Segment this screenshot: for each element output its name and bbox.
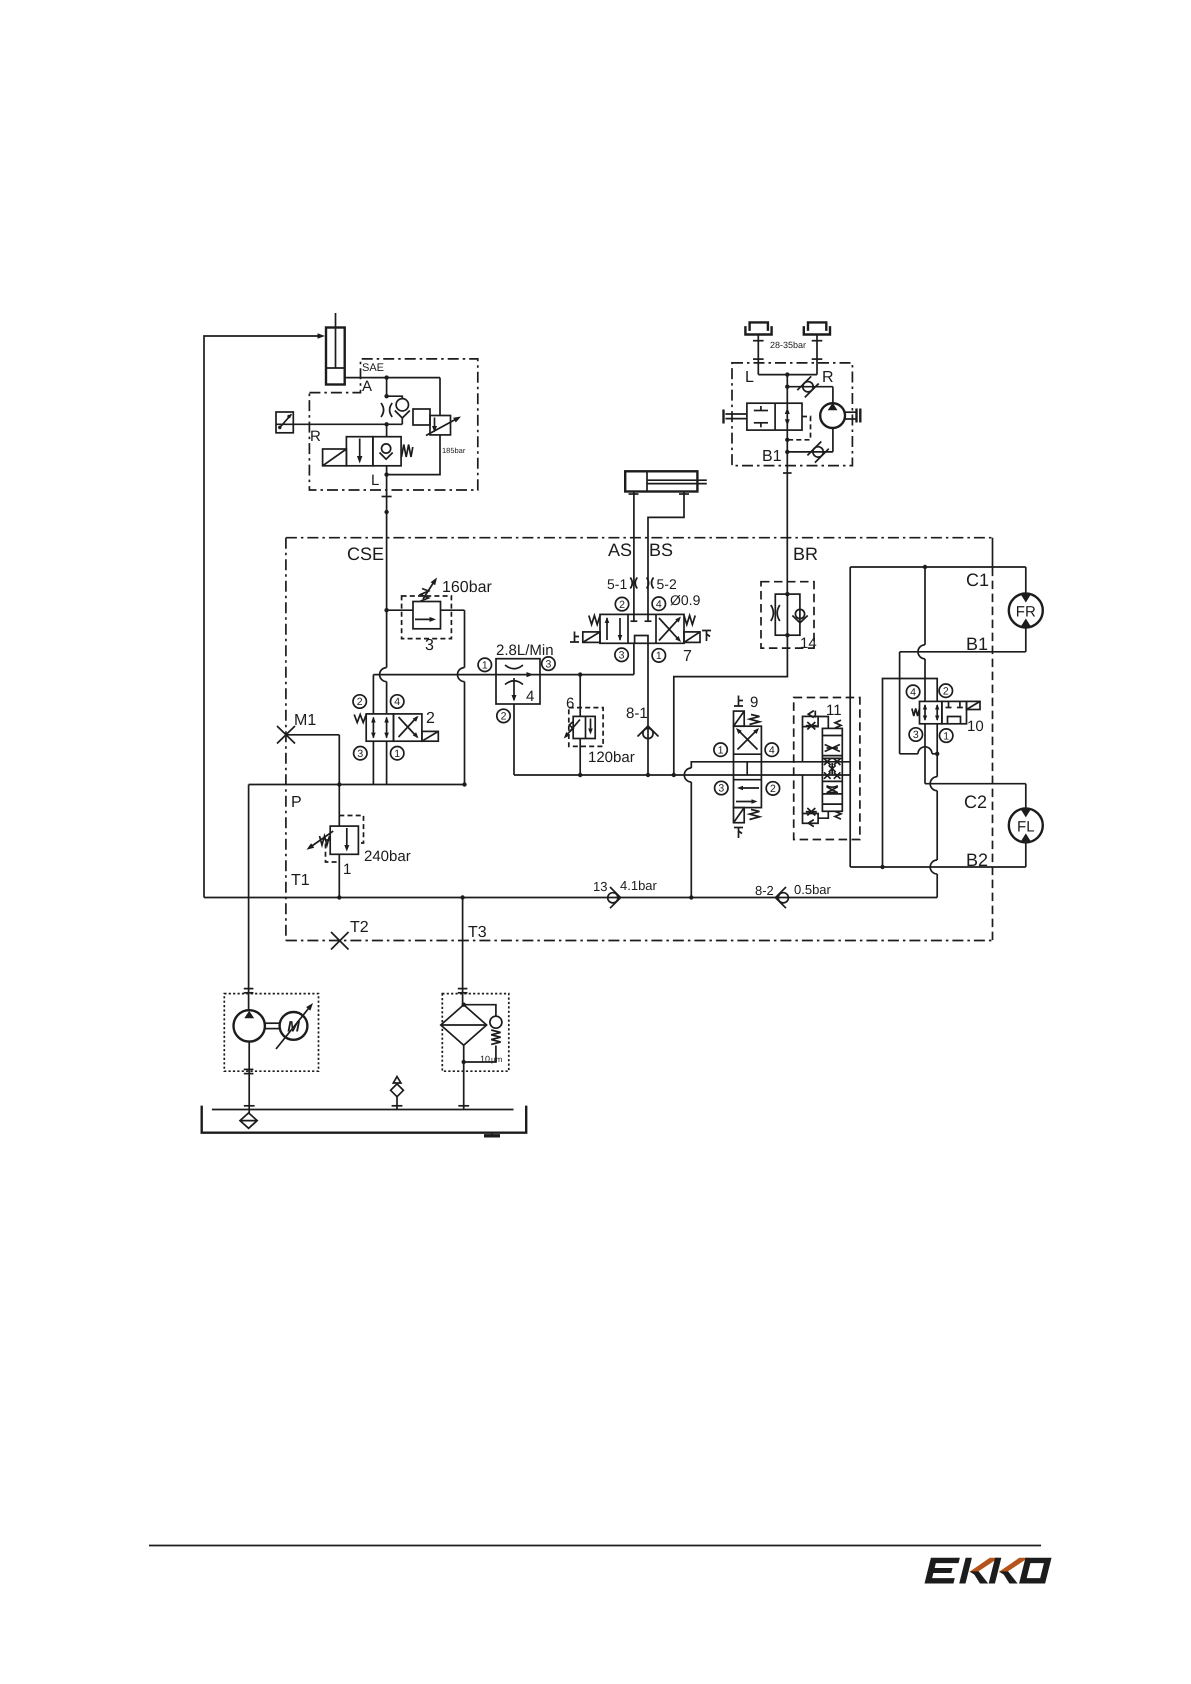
hydraulic motor brake (tow release)	[820, 387, 860, 428]
label 28-35bar	[770, 340, 806, 350]
svg-text:A: A	[362, 378, 372, 395]
svg-text:P: P	[291, 794, 302, 811]
svg-text:1: 1	[943, 730, 949, 742]
valve 7 labels	[570, 576, 711, 665]
valve 9 labels	[714, 694, 780, 838]
svg-text:10: 10	[967, 718, 984, 735]
wire pump riser P	[244, 785, 254, 1011]
svg-text:4: 4	[526, 688, 534, 705]
solenoid valve SAE 2/2	[323, 437, 413, 466]
svg-text:C2: C2	[964, 792, 987, 812]
svg-text:6: 6	[566, 695, 574, 712]
filter bypass check valve	[464, 1005, 503, 1064]
check valve pilot-operated (SAE)	[387, 396, 410, 424]
port label T1	[291, 872, 310, 889]
check valve 13 (4.1bar)	[593, 878, 658, 908]
svg-text:13: 13	[593, 879, 607, 894]
wire tank return header y897.5	[204, 895, 937, 899]
wire valve10 right riser	[880, 679, 937, 898]
valve 14 orifice+check	[761, 582, 817, 652]
svg-text:2: 2	[770, 783, 776, 795]
svg-text:2: 2	[357, 696, 363, 708]
tank ground mark	[484, 1133, 500, 1136]
wire main line through valve to node L	[371, 424, 389, 489]
EKKO logo	[925, 1558, 1052, 1584]
port label BR	[793, 544, 818, 564]
svg-text:CSE: CSE	[347, 544, 384, 564]
svg-text:160bar: 160bar	[442, 579, 492, 596]
wire B1 line	[900, 634, 1026, 654]
svg-text:2.8L/Min: 2.8L/Min	[496, 642, 554, 659]
svg-text:3: 3	[718, 783, 724, 795]
directional valve 2 (4/2 solenoid)	[354, 714, 438, 741]
svg-text:3: 3	[545, 658, 551, 670]
svg-text:R: R	[310, 428, 321, 445]
relief valve 185bar	[413, 409, 466, 455]
wire valve10 left riser (C1 to C2)	[918, 567, 925, 784]
svg-text:B2: B2	[966, 850, 988, 870]
return filter	[441, 1003, 487, 1110]
svg-text:1: 1	[656, 650, 662, 662]
port M1 plugged	[277, 712, 316, 744]
svg-text:L: L	[371, 472, 379, 489]
brake release spool cylinder	[724, 403, 803, 430]
svg-text:3: 3	[619, 650, 625, 662]
node 3 label (flow reg out)	[542, 657, 555, 670]
svg-text:1: 1	[343, 861, 351, 878]
svg-text:2: 2	[501, 711, 507, 723]
svg-text:2: 2	[943, 685, 949, 697]
svg-text:185bar: 185bar	[442, 446, 466, 455]
svg-text:2: 2	[426, 710, 435, 727]
node 2 label (flow reg bottom)	[497, 709, 510, 722]
solenoid valve 10	[912, 701, 980, 723]
wire valve2 bottom ports to P line	[373, 741, 386, 784]
flow divider assembly 11	[794, 698, 860, 840]
wire BS line	[648, 492, 684, 615]
svg-text:B1: B1	[762, 448, 782, 465]
switch S1 (tilt lock)	[276, 412, 309, 433]
wire R line	[309, 422, 402, 445]
port label P	[291, 794, 302, 811]
svg-text:7: 7	[683, 648, 692, 665]
wire upper bus y761.8	[734, 761, 851, 763]
port label BS	[649, 540, 673, 560]
wire riser from tank-return line (hops bus)	[684, 762, 733, 898]
pump unit dotted enclosure	[224, 994, 318, 1072]
wire C1 line	[850, 565, 1026, 590]
wire lower bus y775	[514, 773, 850, 777]
svg-text:1: 1	[718, 744, 724, 756]
svg-text:SAE: SAE	[362, 362, 384, 374]
wire brake L/R manifold	[758, 372, 817, 403]
svg-text:L: L	[745, 369, 754, 386]
svg-text:9: 9	[750, 694, 758, 711]
pump P1	[234, 1010, 265, 1041]
wire to valve2 port2	[372, 675, 374, 714]
relief valve 3 160bar	[387, 578, 493, 655]
svg-text:AS: AS	[608, 540, 632, 560]
svg-text:4: 4	[769, 744, 775, 756]
directional valve 7 (4/3)	[583, 614, 700, 643]
svg-text:T3: T3	[468, 924, 487, 941]
svg-text:4: 4	[394, 696, 400, 708]
wire C2 line	[925, 784, 1026, 812]
port T2 plugged	[331, 919, 369, 950]
svg-text:3: 3	[913, 729, 919, 741]
directional valve 9	[734, 711, 762, 823]
valve 10 labels	[906, 684, 983, 742]
svg-text:10: 10	[480, 1054, 490, 1064]
svg-text:C1: C1	[966, 570, 989, 590]
brake actuator right	[804, 322, 830, 374]
wire node A down	[384, 378, 388, 399]
node 1 label (flow reg in)	[478, 658, 491, 671]
brake actuator left	[745, 322, 771, 374]
svg-text:BS: BS	[649, 540, 673, 560]
wire B1 drop and cross-over	[900, 652, 940, 756]
svg-text:120bar: 120bar	[588, 749, 635, 766]
relief valve 6 120bar	[564, 675, 635, 775]
svg-text:4: 4	[910, 687, 916, 699]
svg-text:8-2: 8-2	[755, 883, 774, 898]
wire regulated line y674	[373, 672, 634, 676]
svg-text:R: R	[822, 369, 834, 386]
cylinder tilt (top left)	[326, 313, 345, 385]
main manifold dash-dot enclosure	[286, 538, 993, 941]
brake unit dash-dot enclosure	[732, 363, 852, 466]
svg-text:T1: T1	[291, 872, 310, 889]
pilot dashed line brake spool	[787, 417, 810, 440]
wire cylinder to node A	[345, 377, 440, 379]
valve 2 port labels	[353, 695, 435, 760]
wire CSE line inside box	[380, 608, 389, 714]
electric motor M	[265, 1003, 313, 1049]
svg-text:1: 1	[482, 660, 488, 672]
wire CSE drop from SAE block	[382, 475, 392, 611]
svg-text:8-1: 8-1	[626, 705, 648, 722]
wire flow reg port2 down to bus	[513, 704, 515, 775]
wire right riser (C1 to B2)	[849, 567, 851, 867]
SAE valve block dash-dot enclosure	[309, 359, 477, 490]
check valve brake lower	[787, 428, 833, 463]
svg-text:M1: M1	[294, 712, 316, 729]
wire spool to B1 node	[762, 430, 790, 466]
svg-text:240bar: 240bar	[364, 848, 411, 865]
motor FL	[1009, 784, 1043, 867]
footer rule	[149, 1545, 1041, 1547]
svg-text:3: 3	[357, 748, 363, 760]
wire pump suction	[244, 1042, 255, 1113]
wire M1 to P junction	[286, 735, 339, 785]
wire valve14 to lower bus	[674, 635, 788, 775]
svg-text:B1: B1	[966, 634, 988, 654]
port label AS	[608, 540, 632, 560]
svg-text:4: 4	[656, 598, 662, 610]
svg-text:5-1: 5-1	[607, 576, 627, 592]
wire BR line	[783, 466, 792, 594]
check valve 8-2 (0.5bar)	[755, 882, 832, 908]
orifice on pilot check line	[381, 403, 392, 417]
wire T3 drop	[458, 898, 468, 1005]
svg-text:T2: T2	[350, 919, 369, 936]
suction strainer	[240, 1113, 257, 1128]
reservoir tank	[202, 1106, 527, 1133]
node A junction	[362, 362, 389, 395]
svg-text:14: 14	[800, 635, 817, 652]
wire node L to relief branch	[387, 378, 440, 475]
wire P supply line y784.5	[249, 782, 465, 786]
svg-text:4.1bar: 4.1bar	[620, 878, 658, 893]
cylinder steer (AS/BS)	[625, 471, 707, 494]
wire left outer supply line	[204, 333, 325, 897]
svg-text:3: 3	[425, 637, 434, 654]
motor FR	[1009, 567, 1043, 652]
svg-text:Ø0.9: Ø0.9	[670, 592, 701, 608]
relief valve 1 240bar	[307, 785, 411, 898]
wire B2 line	[850, 850, 1026, 870]
svg-text:FL: FL	[1017, 818, 1035, 835]
svg-text:1: 1	[394, 748, 400, 760]
flow regulator 4 (2.8L/Min)	[496, 642, 554, 705]
breather	[391, 1077, 404, 1110]
svg-text:µm: µm	[491, 1055, 503, 1064]
wire valve3 outlet down	[458, 610, 467, 787]
port label T3	[468, 924, 487, 941]
wire valve7 port1 down	[647, 643, 649, 775]
check valve 8-1	[626, 705, 659, 739]
svg-text:5-2: 5-2	[657, 576, 677, 592]
svg-text:28-35bar: 28-35bar	[770, 340, 806, 350]
svg-text:0.5bar: 0.5bar	[794, 882, 832, 897]
port label CSE	[347, 544, 384, 564]
svg-text:BR: BR	[793, 544, 818, 564]
filter unit dotted enclosure	[442, 994, 509, 1072]
svg-text:2: 2	[619, 599, 625, 611]
wire valve7 port3 to regulated line	[633, 643, 635, 674]
svg-text:FR: FR	[1016, 604, 1036, 621]
check valve brake upper	[787, 376, 833, 397]
wire AS line	[633, 492, 635, 615]
